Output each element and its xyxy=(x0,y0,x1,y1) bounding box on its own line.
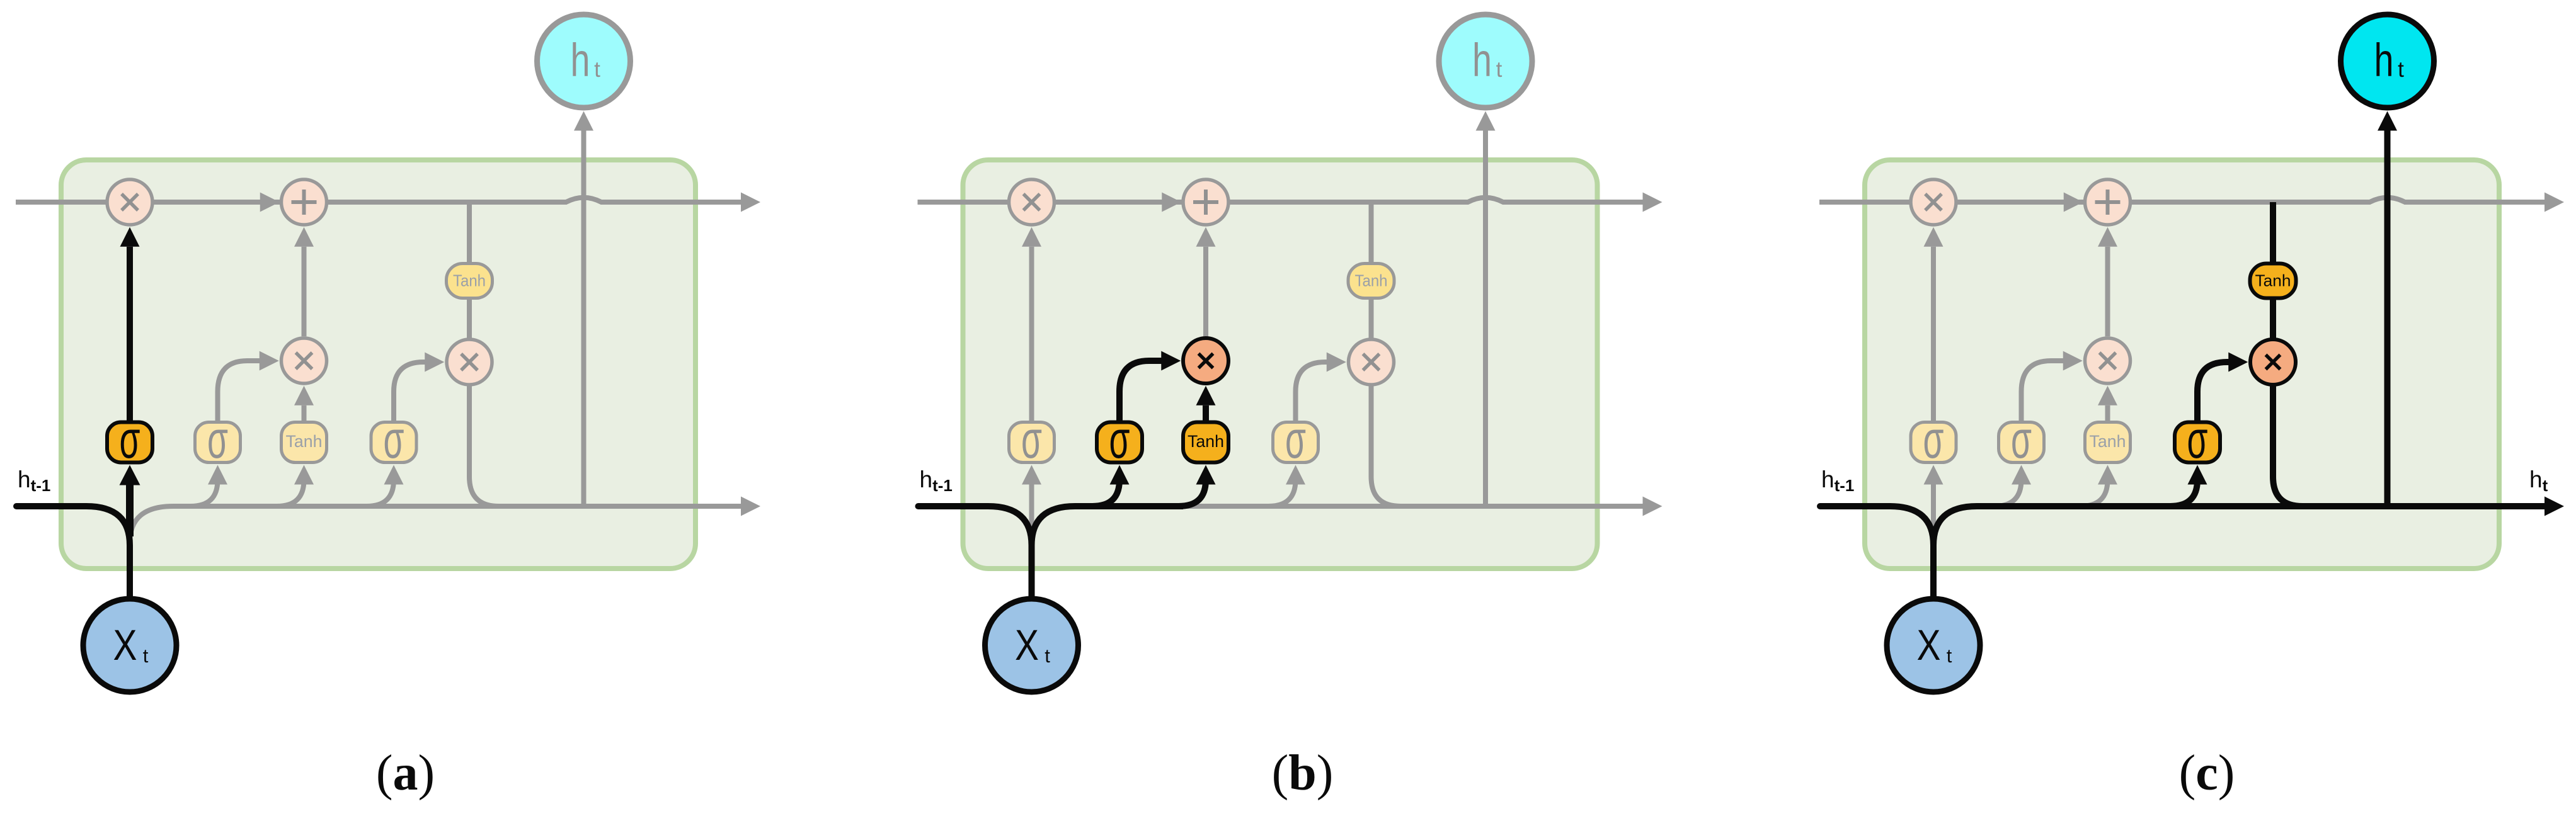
wire: junction up into forget gate sigma (c) xyxy=(1931,484,1936,536)
svg-text:σ: σ xyxy=(384,410,404,469)
wire: input multiply up into add node (b) xyxy=(1203,247,1208,337)
arrowhead: into h_t circle (b) xyxy=(1476,111,1496,131)
state Tanh box (a) xyxy=(447,264,493,298)
svg-text:(b): (b) xyxy=(1272,745,1334,801)
wire: forget sigma output up to forget multiply (b) xyxy=(1029,247,1034,421)
add node (pointwise +) (a) xyxy=(282,179,327,225)
svg-text:Tanh: Tanh xyxy=(1355,271,1388,290)
arrowhead: into forget sigma (b) xyxy=(1022,465,1041,485)
wire: h_t-1 input merging with x_t (junction) (a) xyxy=(16,506,130,598)
wire: output multiply down to hidden-state line (c) xyxy=(2273,385,2308,506)
svg-text:σ: σ xyxy=(1021,410,1042,469)
wire: output sigma up-and-right into output multiply (c) xyxy=(2197,362,2229,421)
x_t input circle (a) xyxy=(83,599,176,692)
wire: elbow from hidden line into candidate Tanh (b) xyxy=(1179,480,1206,506)
x_t input circle (c) xyxy=(1887,599,1980,692)
arrowhead: into candidate Tanh (c) xyxy=(2098,465,2117,485)
arrowhead: into add node bottom (c) xyxy=(2098,227,2117,247)
arrowhead: cell-state into add node (a) xyxy=(260,193,280,212)
wire: cell-state line c_t-1 -> c_t (a) xyxy=(16,198,741,202)
wire: junction out right along hidden line (highlighted) (b) xyxy=(1032,506,1184,545)
arrowhead: into h_t circle (c) xyxy=(2378,111,2397,131)
arrowhead: into forget multiply (a) xyxy=(120,227,140,247)
arrowhead: into output multiply left (c) xyxy=(2228,353,2248,372)
arrowhead: into output sigma (a) xyxy=(384,465,404,485)
svg-text:Tanh: Tanh xyxy=(453,271,486,290)
forget multiply node (pointwise x) (a) xyxy=(107,179,152,225)
wire: cell-state tap down into state Tanh (b) xyxy=(1369,202,1374,264)
wire: hidden-state line to output (gray) (a) xyxy=(130,506,741,543)
svg-text:ht: ht xyxy=(2529,467,2548,495)
LSTM cell container box (b) xyxy=(963,160,1598,569)
candidate Tanh box (a) xyxy=(282,422,327,463)
svg-text:h: h xyxy=(2374,34,2394,86)
wire: elbow from hidden line into input gate sigma (c) xyxy=(1995,480,2022,506)
input multiply node (pointwise x) (b) xyxy=(1183,338,1228,383)
svg-text:t: t xyxy=(2398,57,2404,82)
svg-text:t: t xyxy=(143,645,149,667)
svg-text:Tanh: Tanh xyxy=(1188,432,1224,451)
wire: input sigma up-and-right into input multiply (b) xyxy=(1119,361,1162,421)
arrowhead: into candidate Tanh (a) xyxy=(294,465,314,485)
svg-text:Tanh: Tanh xyxy=(2255,271,2291,290)
arrowhead: into input sigma (c) xyxy=(2012,465,2031,485)
forget gate sigma box (a) xyxy=(107,422,152,463)
arrowhead: into add node bottom (b) xyxy=(1196,227,1216,247)
wire: elbow from hidden line into output gate sigma (c) xyxy=(2170,480,2197,506)
svg-text:ht-1: ht-1 xyxy=(1821,467,1854,495)
output gate sigma box (b) xyxy=(1273,422,1319,463)
arrowhead: into input multiply left (b) xyxy=(1161,351,1181,371)
LSTM cell container box (a) xyxy=(61,160,696,569)
h_t output circle (b) xyxy=(1439,14,1532,108)
wire: candidate Tanh up into input multiply (a) xyxy=(302,405,307,421)
arrowhead: cell-state output (a) xyxy=(741,193,760,212)
svg-text:σ: σ xyxy=(2011,410,2032,469)
svg-text:h: h xyxy=(1472,34,1492,86)
wire: elbow from hidden line into input gate sigma (b) xyxy=(1092,480,1119,506)
svg-text:σ: σ xyxy=(120,410,140,469)
arrowhead: into input multiply bottom (c) xyxy=(2098,386,2117,405)
wire: forget sigma output up to forget multiply (c) xyxy=(1931,247,1936,421)
wire: cell-state line c_t-1 -> c_t (b) xyxy=(918,198,1643,202)
arrowhead: into input multiply left (a) xyxy=(260,351,279,371)
arrowhead: into forget sigma (c) xyxy=(1924,465,1943,485)
input multiply node (pointwise x) (a) xyxy=(282,338,327,383)
wire: candidate Tanh up into input multiply (c) xyxy=(2105,405,2110,421)
svg-text:t: t xyxy=(1496,57,1503,82)
state Tanh box (b) xyxy=(1348,264,1394,298)
add node (pointwise +) (b) xyxy=(1183,179,1228,225)
wire: junction up into forget gate sigma (b) xyxy=(1029,484,1034,536)
wire: output multiply down to hidden-state line (a) xyxy=(469,385,504,506)
wire: junction up into forget gate sigma (highlighted) (a) xyxy=(126,485,134,536)
wire: elbow from hidden line into output gate sigma (a) xyxy=(367,480,394,506)
arrowhead: into candidate Tanh (b) xyxy=(1196,465,1216,485)
svg-text:Tanh: Tanh xyxy=(286,432,323,451)
svg-text:X: X xyxy=(1917,621,1941,669)
svg-text:(a): (a) xyxy=(376,745,435,801)
candidate Tanh box (b) xyxy=(1183,422,1228,463)
wire: output sigma up-and-right into output multiply (b) xyxy=(1296,362,1327,421)
wire: h_t-1 input merging with x_t (junction) (b) xyxy=(919,506,1032,598)
svg-text:h: h xyxy=(571,34,590,86)
wire: elbow from hidden line into candidate Tanh (c) xyxy=(2081,480,2108,506)
wire: candidate Tanh up into input multiply (b) xyxy=(1203,405,1209,421)
arrowhead: hidden-state output (a) xyxy=(741,497,760,516)
svg-text:σ: σ xyxy=(207,410,228,469)
wire: state Tanh down into output multiply (b) xyxy=(1369,298,1374,339)
wire: input sigma up-and-right into input multiply (a) xyxy=(218,361,260,421)
wire: h_t-1 input merging with x_t (junction) (c) xyxy=(1820,506,1933,598)
svg-text:X: X xyxy=(1015,621,1039,669)
wire: state Tanh down into output multiply (a) xyxy=(467,298,472,339)
arrowhead: into forget sigma (highlighted) (a) xyxy=(120,465,140,485)
arrowhead: into add node bottom (a) xyxy=(294,227,314,247)
input gate sigma box (a) xyxy=(195,422,241,463)
arrowhead: into input sigma (a) xyxy=(208,465,227,485)
svg-text:σ: σ xyxy=(1923,410,1944,469)
arrowhead: into output multiply left (b) xyxy=(1327,353,1346,372)
svg-text:t: t xyxy=(1045,645,1050,667)
wire: state Tanh down into output multiply (c) xyxy=(2270,298,2276,339)
input multiply node (pointwise x) (c) xyxy=(2085,338,2131,383)
svg-text:ht-1: ht-1 xyxy=(920,467,953,495)
wire: forget sigma output up to forget multiply (a) xyxy=(127,247,133,421)
svg-text:σ: σ xyxy=(1285,410,1306,469)
wire: output multiply down to hidden-state line (b) xyxy=(1371,385,1406,506)
wire: input multiply up into add node (a) xyxy=(302,247,307,337)
svg-text:Tanh: Tanh xyxy=(2090,432,2126,451)
svg-text:t: t xyxy=(594,57,600,82)
wire: output sigma up-and-right into output multiply (a) xyxy=(394,362,425,421)
svg-text:ht-1: ht-1 xyxy=(18,467,50,495)
wire: input sigma up-and-right into input multiply (c) xyxy=(2022,361,2064,421)
wire: hidden-state up to h_t output (c) xyxy=(2384,131,2391,507)
wire: hidden-state up to h_t output (b) xyxy=(1483,131,1488,507)
arrowhead: into forget multiply (b) xyxy=(1022,227,1041,247)
output multiply node (pointwise x) (a) xyxy=(447,339,492,385)
arrowhead: cell-state output (b) xyxy=(1643,193,1663,212)
output multiply node (pointwise x) (c) xyxy=(2250,339,2296,385)
wire: cell-state tap down into state Tanh (a) xyxy=(467,202,472,264)
wire: cell-state tap down into state Tanh (c) xyxy=(2270,202,2276,264)
state Tanh box (c) xyxy=(2250,264,2296,298)
forget multiply node (pointwise x) (b) xyxy=(1009,179,1055,225)
svg-text:X: X xyxy=(113,621,137,669)
arrowhead: into h_t circle (a) xyxy=(574,111,593,131)
arrowhead: into input multiply left (c) xyxy=(2063,351,2083,371)
wire: hidden-state line right segment (gray) (b) xyxy=(1179,504,1643,509)
arrowhead: cell-state into add node (b) xyxy=(1162,193,1181,212)
arrowhead: cell-state into add node (c) xyxy=(2064,193,2083,212)
wire: elbow from hidden line into input gate sigma (a) xyxy=(191,480,218,506)
add node (pointwise +) (c) xyxy=(2085,179,2131,225)
arrowhead: cell-state output (c) xyxy=(2545,193,2564,212)
h_t output circle (a) xyxy=(537,14,631,108)
arrowhead: into input multiply bottom (b) xyxy=(1196,386,1216,405)
wire: hidden-state up to h_t output (a) xyxy=(581,131,587,507)
wire: elbow from hidden line into output gate sigma (b) xyxy=(1269,480,1296,506)
x_t input circle (b) xyxy=(985,599,1079,692)
output gate sigma box (a) xyxy=(371,422,416,463)
svg-text:t: t xyxy=(1947,645,1952,667)
arrowhead: into output sigma (b) xyxy=(1286,465,1305,485)
arrowhead: into forget multiply (c) xyxy=(1924,227,1943,247)
input gate sigma box (c) xyxy=(1999,422,2044,463)
arrowhead: into input sigma (b) xyxy=(1110,465,1130,485)
forget multiply node (pointwise x) (c) xyxy=(1911,179,1956,225)
forget gate sigma box (c) xyxy=(1911,422,1956,463)
LSTM cell container box (c) xyxy=(1865,160,2499,569)
output gate sigma box (c) xyxy=(2175,422,2220,463)
output multiply node (pointwise x) (b) xyxy=(1349,339,1394,385)
forget gate sigma box (b) xyxy=(1009,422,1055,463)
arrowhead: into output sigma (c) xyxy=(2188,465,2207,485)
input gate sigma box (b) xyxy=(1097,422,1142,463)
candidate Tanh box (c) xyxy=(2085,422,2131,463)
svg-text:(c): (c) xyxy=(2179,745,2235,801)
wire: elbow from hidden line into candidate Tanh (a) xyxy=(277,480,304,506)
arrowhead: into input multiply bottom (a) xyxy=(294,386,314,405)
arrowhead: hidden-state/h_t output (highlighted) (c) xyxy=(2545,497,2564,516)
svg-text:σ: σ xyxy=(1109,410,1130,469)
wire: junction out right along hidden line (highlighted) (c) xyxy=(1933,506,2545,545)
h_t output circle (c) xyxy=(2341,14,2434,108)
arrowhead: into output multiply left (a) xyxy=(425,353,444,372)
arrowhead: hidden-state output (b) xyxy=(1643,497,1663,516)
wire: cell-state line c_t-1 -> c_t (c) xyxy=(1819,198,2545,202)
wire: input multiply up into add node (c) xyxy=(2105,247,2110,337)
svg-text:σ: σ xyxy=(2187,410,2208,469)
